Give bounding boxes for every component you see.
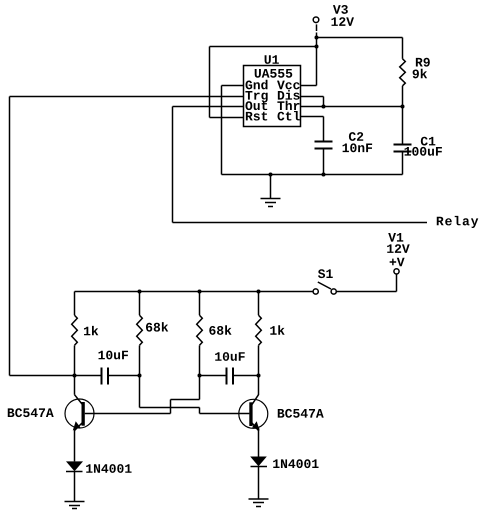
label C1 value	[405, 137, 442, 156]
pin labels U1 left	[245, 80, 267, 121]
wire Vcc pin	[301, 85, 317, 87]
node junction rail/68k1	[138, 290, 142, 294]
wire Trg pin long left	[10, 97, 244, 376]
wire Rst to Vcc net	[210, 47, 317, 118]
label 1N4001 left	[86, 464, 131, 473]
node junction rail/68k2	[198, 290, 202, 294]
wire Gnd pin down to rail	[222, 86, 244, 175]
label V3 value	[331, 5, 354, 26]
ground G2	[65, 502, 85, 509]
resistor 68k right	[197, 292, 203, 400]
switch S1	[313, 282, 396, 294]
node junction Q1 collector	[73, 374, 77, 378]
wire cap row right	[200, 375, 227, 377]
node junction Thr/R9/C1	[401, 105, 405, 109]
wire cap row left	[10, 375, 102, 377]
wire ground rail	[222, 174, 403, 176]
label S1	[318, 269, 333, 278]
capacitor C1	[394, 107, 412, 175]
label 1k right	[270, 325, 284, 334]
ground symbol G1	[261, 173, 281, 207]
wire Ctl pin to C2	[301, 117, 324, 142]
pin labels U1 right	[277, 81, 300, 121]
wire base coupling 68k1 to Q2 base	[140, 408, 250, 414]
wire supply rail bottom	[75, 291, 313, 293]
power terminal V3	[313, 17, 319, 38]
node junction Dis/Thr	[322, 105, 326, 109]
label 10uF left	[98, 351, 128, 360]
diode D2 1N4001	[250, 457, 267, 500]
label 1N4001 right	[273, 459, 318, 468]
label BC547A right	[278, 409, 324, 418]
wire Out pin to Relay	[173, 107, 428, 223]
wire Thr pin	[301, 106, 403, 108]
wire base coupling 68k2 to Q1 base	[85, 400, 200, 414]
node junction V3/R9	[315, 36, 319, 40]
capacitor 10uF right	[227, 368, 259, 385]
node junction cap2/68k2	[198, 374, 202, 378]
IC U1 UA555 box	[244, 66, 301, 127]
label 68k left	[146, 322, 168, 332]
capacitor 10uF left	[102, 368, 140, 385]
label 68k right	[209, 325, 231, 335]
diode D1 1N4001	[66, 461, 83, 501]
label V1 value	[387, 233, 410, 266]
capacitor C2	[315, 142, 333, 175]
wire V3 to R9 top	[317, 37, 403, 39]
node junction Q2 collector	[257, 374, 261, 378]
resistor R9	[400, 38, 406, 107]
label 1k left	[84, 326, 98, 335]
transistor Q1 BC547A	[65, 395, 94, 462]
label R9 value	[413, 58, 430, 79]
label Relay	[437, 216, 478, 228]
node junction cap1/68k1	[138, 374, 142, 378]
label C2 value	[343, 132, 373, 152]
node junction Rst link	[315, 45, 319, 49]
power terminal V1 +V	[394, 269, 399, 292]
ground G3	[249, 499, 269, 507]
label BC547A left	[8, 408, 54, 417]
label 10uF right	[215, 352, 245, 361]
transistor Q2 BC547A	[239, 395, 268, 457]
node junction rail/1k2	[257, 290, 261, 294]
resistor 68k left	[137, 292, 143, 408]
node junction C2/rail	[322, 173, 326, 177]
resistor 1k left	[72, 292, 78, 395]
resistor 1k right	[256, 292, 262, 396]
label U1	[255, 55, 293, 77]
wire Dis pin	[301, 97, 324, 107]
wire Vcc vertical	[316, 38, 318, 86]
